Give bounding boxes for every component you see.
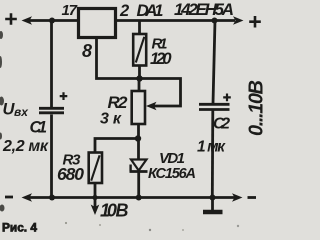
svg-text:2,2 мк: 2,2 мк	[2, 138, 49, 155]
svg-text:VD1: VD1	[159, 150, 185, 167]
svg-text:R2: R2	[108, 93, 129, 112]
svg-text:Рис. 4: Рис. 4	[2, 223, 38, 235]
svg-text:2: 2	[119, 2, 129, 20]
svg-text:142ЕН5А: 142ЕН5А	[174, 0, 234, 19]
svg-text:С2: С2	[213, 116, 230, 133]
svg-text:0...10В: 0...10В	[246, 80, 268, 136]
svg-text:3 к: 3 к	[100, 111, 122, 128]
svg-text:КС156А: КС156А	[148, 166, 196, 182]
svg-text:8: 8	[82, 41, 92, 61]
svg-text:1 мк: 1 мк	[197, 139, 226, 156]
svg-text:120: 120	[150, 50, 172, 68]
svg-text:10 В: 10 В	[100, 201, 129, 221]
svg-text:DA1: DA1	[137, 1, 164, 20]
svg-text:С1: С1	[30, 119, 48, 137]
svg-text:17: 17	[62, 2, 78, 19]
svg-text:680: 680	[57, 164, 84, 184]
svg-text:вх: вх	[14, 105, 29, 119]
